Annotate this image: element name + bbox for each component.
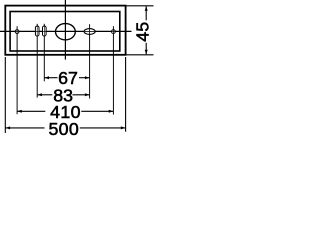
500 arrow left [6,126,11,129]
83 arrow left [37,93,42,96]
slot 1 centerline / 83 extension [36,24,38,98]
right hole centerline / 410 extension [112,26,114,114]
right hole inner cross [111,31,115,33]
mounting hole right (circle) [112,30,116,34]
45 dimension line lower segment [145,43,147,54]
oval inner cross [85,31,95,33]
67 dimension line [44,77,57,79]
inner body rectangle [10,12,120,52]
67 arrow right [85,76,90,79]
horizontal centerline [0,30,132,32]
outer housing rectangle [5,6,125,55]
45 top extension line [126,5,153,7]
left hole inner cross [15,31,19,33]
410 arrow left [17,110,22,113]
83 arrow right [85,93,90,96]
mounting hole left (circle) [15,30,19,34]
410 dimension line [17,110,45,112]
500 dimension line [6,127,45,129]
left outer extension for 500 [4,57,6,133]
83 dimension line [37,94,52,96]
slot 1 (vertical obround) [35,26,39,36]
slot 2 inner cross [43,26,45,35]
slot 2 centerline / 67 extension [43,24,45,82]
410 arrow right [109,110,114,113]
oval centerline / 67-83 extension [89,24,91,98]
45 arrow up [145,6,148,11]
45 arrow down [145,50,148,55]
45 dimension line upper segment [145,6,147,20]
right outer extension for 500 [125,57,127,132]
vertical centerline (ellipse) [64,0,66,60]
left hole centerline / 410 extension [16,26,18,114]
svg-text:500: 500 [48,119,79,139]
large center ellipse (knockout) [56,24,76,40]
horizontal oval (knockout) [84,29,95,35]
67 arrow left [44,76,49,79]
45 bottom extension line [126,54,153,56]
slot 2 (vertical obround) [43,26,47,36]
svg-text:45: 45 [132,22,152,42]
500 arrow right [121,126,126,129]
slot 1 inner cross [36,26,38,35]
